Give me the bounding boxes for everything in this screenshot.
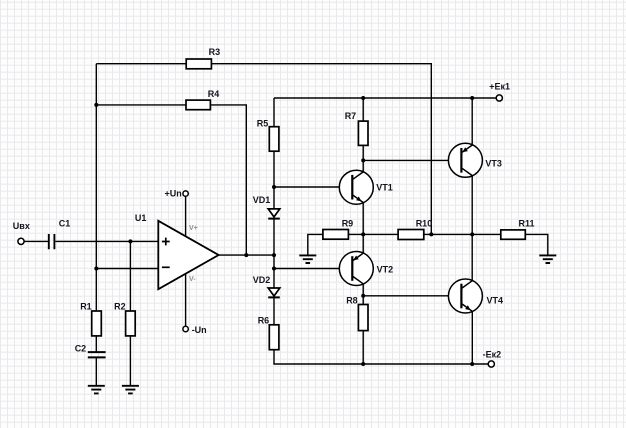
svg-text:R9: R9 (342, 219, 354, 229)
resistor R2 (114, 302, 135, 336)
wire R9 to R10 (348, 233, 398, 235)
wire VD1 to VD2 (273, 219, 275, 288)
transistor VT1 (339, 170, 393, 204)
diode VD2 (253, 275, 280, 297)
wire R10 to R11 (424, 233, 501, 235)
resistor R3 (186, 47, 220, 69)
node VT1 collector junction (361, 158, 365, 162)
wire R5 top (273, 98, 275, 127)
resistor R9 (323, 219, 353, 240)
ground R9 (299, 255, 316, 263)
resistor R11 (501, 218, 535, 239)
node inverting input junction (94, 267, 98, 271)
svg-text:VT2: VT2 (377, 265, 394, 275)
op-amp U1 (135, 213, 219, 289)
wire R2 drop (129, 241, 131, 311)
wire R3 left segment (96, 63, 186, 65)
svg-text:V+: V+ (189, 225, 198, 232)
svg-text:R10: R10 (416, 219, 433, 229)
diode VD1 (253, 195, 280, 219)
svg-text:Uвх: Uвх (13, 221, 30, 231)
node feedback junction (244, 253, 248, 257)
wire VT2 collector down (362, 284, 364, 305)
resistor R6 (258, 316, 279, 350)
svg-text:R11: R11 (519, 218, 535, 228)
wire VT3 collector to mid rail (471, 176, 473, 235)
ground C2 (88, 386, 105, 394)
wire to VT4 base (363, 295, 461, 297)
wire R4 right segment down to output (210, 105, 246, 255)
svg-text:+Eк1: +Eк1 (489, 82, 510, 92)
terminal Uvx input (13, 221, 30, 244)
wire R8 to bottom rail (362, 331, 364, 364)
wire R1 to C2 (95, 336, 97, 352)
svg-text:VT4: VT4 (487, 295, 504, 305)
wire op-amp output (219, 254, 274, 256)
node VT2 base tap (272, 267, 276, 271)
node R3 drop junction (429, 232, 433, 236)
svg-text:R3: R3 (209, 47, 221, 57)
svg-text:VT1: VT1 (376, 182, 393, 192)
transistor VT2 (339, 252, 393, 286)
svg-text:VT3: VT3 (485, 158, 502, 168)
node VT3/VT4 collector junction (470, 232, 474, 236)
svg-text:R4: R4 (208, 89, 220, 99)
wire to VT1 base (274, 186, 352, 188)
node VT4 emitter junction (470, 362, 474, 366)
wire VT2 emitter to mid rail (362, 234, 364, 253)
transistor VT3 (448, 143, 502, 177)
svg-text:R7: R7 (345, 111, 357, 121)
svg-text:R1: R1 (80, 302, 92, 312)
wire input to C1 (24, 240, 48, 242)
capacitor C1 (49, 219, 71, 250)
wire VD2 to R6 (273, 297, 275, 324)
node output to chain (272, 253, 276, 257)
wire R3 right segment down to mid rail (211, 64, 431, 235)
node VT1 base tap (272, 185, 276, 189)
ground R11 (539, 255, 556, 263)
wire left feedback rail (95, 64, 97, 311)
svg-text:VD2: VD2 (253, 275, 271, 285)
resistor R1 (80, 302, 101, 336)
terminal +Ek1 (489, 82, 510, 102)
svg-text:R5: R5 (257, 119, 269, 129)
wire +Ek1 rail (274, 97, 496, 99)
svg-text:U1: U1 (135, 213, 147, 223)
wire VT3 emitter (471, 98, 473, 145)
svg-text:VD1: VD1 (253, 195, 271, 205)
wire V- to -Un (185, 274, 187, 326)
resistor R4 (186, 89, 219, 110)
terminal -Ek2 (483, 350, 502, 368)
wire R11 right and ground stub (525, 234, 548, 255)
capacitor C2 (75, 343, 106, 357)
node R2 tap (128, 239, 132, 243)
wire R6 to bottom rail (274, 350, 488, 364)
node mid rail left junction (361, 232, 365, 236)
svg-text:R8: R8 (346, 296, 358, 306)
terminal -Un (183, 325, 207, 335)
transistor VT4 (448, 279, 503, 313)
node VT2 collector junction (361, 294, 365, 298)
wire VT1 emitter to mid rail (362, 203, 364, 235)
wire to VT3 base (363, 159, 461, 161)
wire VT4 collector (471, 234, 473, 280)
terminal +Un (165, 188, 189, 198)
resistor R8 (346, 296, 368, 331)
wire to VT2 base (274, 268, 352, 270)
node VT3 emitter junction (470, 96, 474, 100)
resistor R5 (257, 119, 279, 152)
node R4 tap (94, 103, 98, 107)
ground R2 (122, 386, 139, 394)
node R8 bottom junction (361, 362, 365, 366)
wire VT4 emitter to bottom rail (471, 311, 473, 364)
svg-text:R6: R6 (258, 316, 270, 326)
svg-text:V-: V- (189, 276, 196, 283)
wire C1 to op-amp + input (55, 240, 158, 242)
wire R4 left segment (96, 104, 186, 106)
wire R5 to VD1 (273, 151, 275, 209)
svg-text:C2: C2 (75, 343, 87, 353)
svg-text:-Eк2: -Eк2 (483, 350, 502, 360)
svg-text:C1: C1 (59, 219, 71, 229)
svg-text:-Un: -Un (192, 325, 207, 335)
svg-text:R2: R2 (114, 302, 126, 312)
resistor R7 (345, 111, 368, 145)
wire to op-amp - input (96, 268, 158, 270)
resistor R10 (398, 219, 432, 240)
svg-text:+Un: +Un (165, 188, 182, 198)
wire R7 top (362, 98, 364, 121)
wire C2 to ground (95, 357, 97, 385)
node R7 top junction (361, 96, 365, 100)
wire R7 to VT1 collector (362, 145, 364, 172)
wire R2 to ground (129, 336, 131, 386)
wire +Un to op-amp V+ (185, 197, 187, 237)
wire R9 left and ground stub (308, 234, 323, 255)
